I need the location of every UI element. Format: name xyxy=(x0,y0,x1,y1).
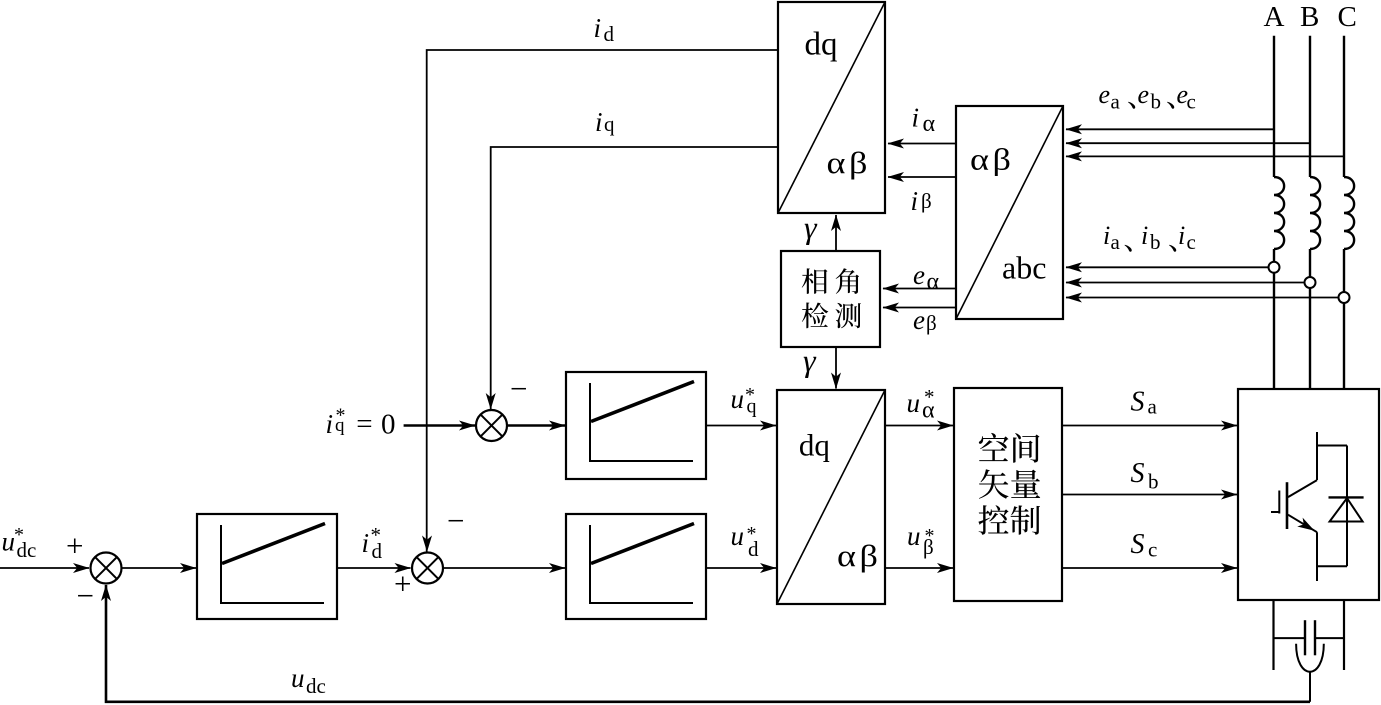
wire i_beta xyxy=(888,176,956,178)
svg-text:e: e xyxy=(1099,80,1111,109)
capacitor C1 plate left xyxy=(1304,620,1306,655)
diode VD1 cathode bar xyxy=(1329,496,1364,498)
svg-text:dq: dq xyxy=(799,428,830,463)
transistor V1 gate lead xyxy=(1271,511,1279,513)
summing junction S1 xyxy=(91,553,122,584)
svg-text:−: − xyxy=(510,371,527,406)
label U4 alpha-beta xyxy=(837,539,881,573)
svg-text:u: u xyxy=(731,521,745,551)
svg-text:d: d xyxy=(372,539,383,563)
block U4 dq to alpha-beta voltage transform xyxy=(777,390,885,604)
diode VD1 triangle xyxy=(1330,498,1363,521)
sensor tap node c xyxy=(1339,292,1350,303)
transistor V1 emitter diagonal xyxy=(1288,515,1317,533)
transistor V1 emitter wire xyxy=(1316,532,1318,581)
summing junction S3 xyxy=(412,553,443,584)
svg-text:S: S xyxy=(1131,458,1145,489)
svg-text:i: i xyxy=(362,528,370,558)
svg-text:α: α xyxy=(923,111,936,137)
wire i_alpha xyxy=(888,143,956,145)
block U5 space vector control 空间矢量控制 xyxy=(954,388,1062,601)
capacitor C1 curved electrode xyxy=(1296,644,1324,672)
wire e_b tap xyxy=(1066,142,1310,144)
svg-text:α: α xyxy=(922,398,935,424)
transistor V1 body bar xyxy=(1286,482,1289,529)
svg-text:u: u xyxy=(291,663,305,693)
svg-text:c: c xyxy=(1187,230,1196,254)
label U5 line3 控制 xyxy=(978,505,1008,534)
wire i_q feedback xyxy=(491,147,778,409)
label U1 alpha-beta xyxy=(827,146,871,180)
svg-text:d: d xyxy=(748,537,759,561)
label i_a i_b i_c xyxy=(1103,221,1196,254)
svg-text:β: β xyxy=(921,189,932,213)
svg-text:c: c xyxy=(1187,90,1196,114)
svg-text:β: β xyxy=(923,535,934,559)
wire S_c xyxy=(1062,567,1237,569)
transistor V1 gate bar xyxy=(1278,491,1280,514)
svg-text:e: e xyxy=(913,260,925,290)
wire S3 to PI3 xyxy=(443,567,565,569)
svg-text:a: a xyxy=(1111,90,1121,114)
wire S1 to PI1 xyxy=(122,567,197,569)
svg-text:q: q xyxy=(747,396,757,418)
block U6 PWM rectifier bridge xyxy=(1238,389,1379,600)
wire u_dc feedback xyxy=(106,585,1310,702)
svg-text:=: = xyxy=(356,408,372,440)
svg-text:i: i xyxy=(1178,221,1185,250)
label U5 line1 空间 xyxy=(979,433,1009,461)
svg-text:αβ: αβ xyxy=(827,146,871,180)
label U3 line1 相角 xyxy=(802,268,828,294)
wire i_d feedback xyxy=(427,50,778,552)
svg-text:γ: γ xyxy=(804,209,818,245)
wire DC bus negative xyxy=(1343,600,1345,670)
wire u*_d xyxy=(706,567,776,569)
svg-text:C: C xyxy=(1338,1,1357,33)
wire i*_q reference xyxy=(404,424,475,426)
wire S2 to PI2 xyxy=(507,424,565,426)
node B phase line xyxy=(1309,36,1311,177)
wire i_c xyxy=(1066,297,1339,299)
capacitor C1 right lead xyxy=(1315,637,1344,639)
svg-text:e: e xyxy=(1138,80,1150,109)
transistor V1 collector diagonal xyxy=(1288,480,1317,497)
wire e_beta xyxy=(883,307,956,309)
svg-text:c: c xyxy=(1148,538,1157,562)
wire gamma to U1 xyxy=(835,215,837,251)
svg-text:i: i xyxy=(1103,221,1110,250)
inductor Lc xyxy=(1344,177,1354,249)
svg-text:β: β xyxy=(926,311,937,335)
svg-text:u: u xyxy=(2,527,16,557)
block PI2 q-axis current regulator xyxy=(566,372,706,479)
wire u_dc feedback stem xyxy=(1309,672,1311,702)
sensor tap node a xyxy=(1269,262,1280,273)
block PI3 d-axis current regulator xyxy=(566,514,706,619)
svg-text:A: A xyxy=(1264,1,1285,33)
svg-text:α: α xyxy=(927,269,940,295)
node C phase line xyxy=(1343,36,1345,177)
svg-text:−: − xyxy=(447,503,464,538)
transistor V1 IGBT collector wire xyxy=(1316,432,1318,480)
inductor La xyxy=(1274,177,1284,249)
summing junction S2 xyxy=(476,410,507,441)
svg-text:u: u xyxy=(907,388,921,418)
block U1 dq to alpha-beta current transform xyxy=(778,2,885,213)
wire u*_q xyxy=(706,425,776,427)
wire gamma to U4 xyxy=(835,347,837,389)
svg-text:b: b xyxy=(1151,90,1162,114)
block U3 phase angle detection 相角检测 xyxy=(781,251,880,347)
wire e_alpha xyxy=(883,288,956,290)
diode VD1 top link xyxy=(1317,445,1347,447)
svg-text:u: u xyxy=(907,521,921,551)
wire u*_alpha xyxy=(885,425,953,427)
wire i*_d xyxy=(337,567,411,569)
svg-text:S: S xyxy=(1131,387,1145,418)
svg-text:i: i xyxy=(911,186,919,216)
svg-text:+: + xyxy=(66,528,83,563)
svg-text:S: S xyxy=(1131,529,1145,560)
svg-text:i: i xyxy=(594,13,602,43)
svg-text:i: i xyxy=(1141,221,1148,250)
node A phase line xyxy=(1273,36,1275,177)
svg-text:a: a xyxy=(1111,230,1121,254)
label U3 line2 检测 xyxy=(802,302,828,328)
svg-text:b: b xyxy=(1148,470,1159,494)
svg-text:dc: dc xyxy=(17,538,37,562)
wire i_b xyxy=(1066,282,1305,284)
wire e_a tap xyxy=(1066,128,1274,130)
wire S_a xyxy=(1062,425,1237,427)
wire i_a xyxy=(1066,266,1269,268)
svg-text:αβ: αβ xyxy=(837,539,881,573)
svg-text:q: q xyxy=(335,415,345,436)
svg-text:abc: abc xyxy=(1002,250,1046,286)
capacitor C1 left lead xyxy=(1274,637,1306,639)
svg-text:u: u xyxy=(731,384,745,414)
label U2 alpha-beta xyxy=(970,143,1014,177)
diode VD1 branch xyxy=(1346,446,1348,567)
inductor Lb xyxy=(1310,177,1320,249)
svg-text:γ: γ xyxy=(803,342,817,378)
svg-text:i: i xyxy=(912,103,920,133)
svg-text:b: b xyxy=(1150,230,1161,254)
svg-text:q: q xyxy=(604,112,615,136)
svg-text:0: 0 xyxy=(381,409,396,441)
wire e_c tap xyxy=(1066,155,1344,157)
svg-text:a: a xyxy=(1148,395,1158,419)
sensor tap node b xyxy=(1305,277,1316,288)
svg-text:i: i xyxy=(595,107,603,137)
svg-text:+: + xyxy=(394,566,411,601)
wire u*_dc input xyxy=(0,567,89,569)
svg-text:d: d xyxy=(604,22,615,46)
capacitor C1 plate right xyxy=(1314,620,1316,655)
wire DC bus positive xyxy=(1272,600,1274,670)
svg-text:B: B xyxy=(1300,1,1319,33)
svg-text:−: − xyxy=(77,578,94,613)
label e_a e_b e_c xyxy=(1099,80,1196,114)
label U5 line2 矢量 xyxy=(979,469,1009,498)
svg-text:αβ: αβ xyxy=(970,143,1014,177)
wire S_b xyxy=(1062,494,1237,496)
svg-text:dq: dq xyxy=(805,26,838,62)
diode VD1 bottom link xyxy=(1317,565,1347,567)
svg-text:e: e xyxy=(913,305,925,335)
wire u*_beta xyxy=(885,567,953,569)
block PI1 dc voltage regulator xyxy=(197,514,337,619)
svg-text:dc: dc xyxy=(306,674,326,698)
svg-text:i: i xyxy=(326,409,334,439)
block U2 alpha-beta to abc transform xyxy=(956,106,1063,319)
